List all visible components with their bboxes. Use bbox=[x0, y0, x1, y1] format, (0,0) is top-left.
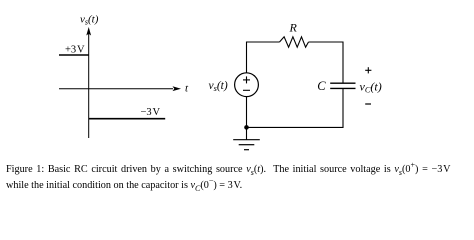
vertical axis (vs axis) bbox=[88, 31, 90, 139]
-3V step segment (t&gt;0) bbox=[89, 118, 166, 120]
wire: resistor to top-right corner and down to capacitor top plate bbox=[309, 42, 344, 83]
svg-text:R: R bbox=[289, 21, 298, 35]
voltage source U circle bbox=[235, 73, 259, 97]
capacitor polarity minus bbox=[365, 103, 371, 105]
svg-text:vs(t): vs(t) bbox=[209, 80, 228, 93]
capacitor polarity plus bbox=[365, 67, 371, 73]
wire: top-left from source up and right to resistor bbox=[247, 42, 280, 73]
svg-text:−3 V: −3 V bbox=[141, 107, 161, 118]
resistor R zigzag bbox=[280, 37, 309, 47]
horizontal axis (t axis) bbox=[59, 88, 173, 90]
capacitor C bottom plate bbox=[330, 87, 355, 89]
svg-text:+3 V: +3 V bbox=[65, 45, 85, 56]
svg-text:vC(t): vC(t) bbox=[360, 80, 382, 95]
svg-text:C: C bbox=[317, 79, 326, 93]
minus sign inside source bbox=[243, 89, 250, 91]
waveform and circuit drawing bbox=[0, 0, 474, 160]
ground symbol bbox=[233, 140, 260, 150]
wire: source bottom to junction bbox=[246, 97, 248, 128]
svg-text:vs(t): vs(t) bbox=[80, 14, 99, 27]
junction node dot bbox=[244, 125, 249, 130]
svg-text:t: t bbox=[185, 83, 189, 95]
figure caption bbox=[6, 162, 472, 193]
+3V step segment (t&lt;0) bbox=[59, 54, 89, 56]
wire: junction to ground bbox=[246, 127, 248, 139]
wire: capacitor bottom down to bottom-right corner and left to junction bbox=[247, 88, 344, 127]
vertical axis arrowhead bbox=[86, 27, 91, 36]
plus sign inside source bbox=[243, 79, 250, 81]
capacitor C top plate bbox=[330, 82, 355, 84]
horizontal axis arrowhead bbox=[173, 86, 182, 91]
